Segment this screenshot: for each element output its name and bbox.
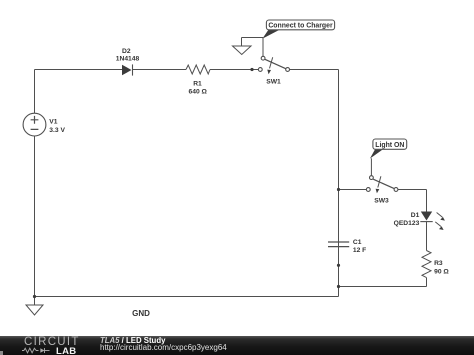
svg-text:GND: GND (132, 309, 150, 318)
svg-text:640 Ω: 640 Ω (189, 89, 208, 96)
svg-text:3.3 V: 3.3 V (49, 127, 65, 134)
svg-text:QED123: QED123 (394, 220, 420, 227)
svg-text:C1: C1 (353, 239, 362, 246)
svg-text:90 Ω: 90 Ω (434, 269, 449, 276)
svg-text:12 F: 12 F (353, 247, 366, 254)
svg-text:Connect to Charger: Connect to Charger (268, 22, 333, 29)
svg-text:SW1: SW1 (266, 78, 281, 85)
svg-text:SW3: SW3 (374, 198, 389, 205)
svg-text:R1: R1 (193, 80, 202, 87)
svg-text:R3: R3 (434, 260, 443, 267)
svg-text:D2: D2 (122, 48, 131, 55)
svg-text:D1: D1 (411, 212, 420, 219)
svg-text:V1: V1 (49, 119, 57, 126)
svg-text:1N4148: 1N4148 (116, 56, 140, 63)
svg-text:Light ON: Light ON (375, 142, 404, 149)
